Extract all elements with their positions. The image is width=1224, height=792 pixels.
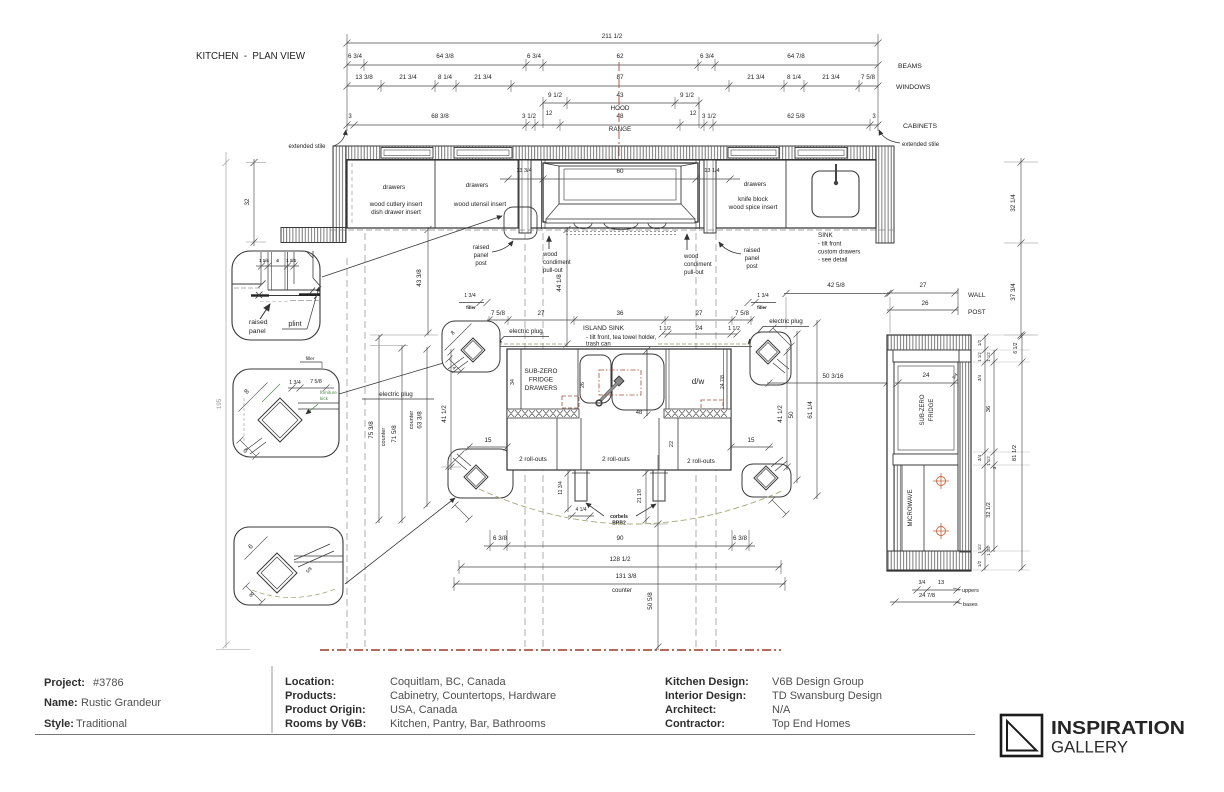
svg-text:d/w: d/w <box>692 377 705 386</box>
counter overhang curve <box>479 489 782 524</box>
elevation mid band <box>893 454 958 465</box>
svg-text:32 1/2: 32 1/2 <box>986 502 992 518</box>
svg-text:68 3/8: 68 3/8 <box>431 113 449 120</box>
wall right leg <box>876 146 894 243</box>
svg-text:filler: filler <box>757 305 767 310</box>
svg-text:Name:: Name: <box>44 697 78 709</box>
island corner posts (diamonds) <box>461 338 485 362</box>
svg-text:raised: raised <box>249 319 268 326</box>
dimension 15 left <box>466 444 511 451</box>
svg-text:64 3/8: 64 3/8 <box>436 53 454 60</box>
raised panel post left callout circle <box>504 207 537 239</box>
dimension 42 5/8 and 27/26 wall post <box>783 290 892 297</box>
svg-text:drawers: drawers <box>383 184 405 191</box>
svg-text:2 roll-outs: 2 roll-outs <box>519 456 547 463</box>
svg-text:TD Swansburg Design: TD Swansburg Design <box>772 690 882 702</box>
dimension row beams: 6 3/4 / 64 3/8 / 6 3/4 / 62 / 6 3/4 / 64 7/8 <box>344 62 882 69</box>
svg-text:22: 22 <box>669 441 675 447</box>
svg-text:Interior Design:: Interior Design: <box>665 690 746 702</box>
centerline hood/range (red) <box>618 62 620 232</box>
svg-text:GALLERY: GALLERY <box>1051 738 1128 757</box>
wall hatched band <box>346 146 876 160</box>
svg-text:Kitchen, Pantry, Bar, Bathroom: Kitchen, Pantry, Bar, Bathrooms <box>390 718 546 730</box>
svg-text:1 3/4: 1 3/4 <box>289 380 301 386</box>
svg-text:extended stile: extended stile <box>902 142 940 148</box>
svg-text:50 5/8: 50 5/8 <box>647 592 654 610</box>
svg-text:62 5/8: 62 5/8 <box>787 113 805 120</box>
svg-text:32: 32 <box>244 198 251 206</box>
svg-text:1 3/4: 1 3/4 <box>757 293 769 299</box>
svg-text:BEAMS: BEAMS <box>898 63 922 70</box>
svg-text:62: 62 <box>616 53 624 60</box>
svg-text:dish drawer insert: dish drawer insert <box>371 209 421 216</box>
svg-text:71 5/8: 71 5/8 <box>391 425 398 443</box>
svg-text:48: 48 <box>616 113 624 120</box>
svg-text:9 1/2: 9 1/2 <box>548 92 563 99</box>
svg-text:wood: wood <box>542 252 557 258</box>
svg-text:Coquitlam, BC, Canada: Coquitlam, BC, Canada <box>390 676 506 688</box>
svg-text:75 3/8: 75 3/8 <box>368 421 375 439</box>
svg-text:43 3/8: 43 3/8 <box>416 269 423 287</box>
svg-text:filler: filler <box>306 356 315 362</box>
svg-text:- tilt front: - tilt front <box>818 242 842 248</box>
svg-text:3 1/2: 3 1/2 <box>522 113 537 120</box>
svg-text:61 1/4: 61 1/4 <box>807 401 814 419</box>
svg-text:13: 13 <box>938 580 944 586</box>
corbel posts <box>575 470 587 501</box>
svg-text:195: 195 <box>216 398 223 409</box>
svg-text:electric plug: electric plug <box>509 328 543 335</box>
svg-text:corbels: corbels <box>610 514 628 520</box>
svg-text:1 1/2: 1 1/2 <box>986 352 991 362</box>
svg-text:1 1/2: 1 1/2 <box>728 326 740 332</box>
box1 raised panel bars <box>251 294 269 296</box>
svg-text:Architect:: Architect: <box>665 704 716 716</box>
range <box>543 163 698 222</box>
svg-text:extended stile: extended stile <box>288 144 326 150</box>
svg-text:4 1/4: 4 1/4 <box>575 507 586 513</box>
svg-text:wood cutlery insert: wood cutlery insert <box>369 201 423 208</box>
base cabinet run outline <box>347 160 876 228</box>
svg-text:1 1/2: 1 1/2 <box>977 544 982 554</box>
dimension 50 3/16 <box>766 380 891 387</box>
svg-text:24: 24 <box>922 372 930 379</box>
svg-text:63 3/8: 63 3/8 <box>417 411 424 429</box>
svg-text:21 3/4: 21 3/4 <box>474 74 492 81</box>
island corner counter boxes <box>442 321 500 372</box>
svg-text:64 7/8: 64 7/8 <box>787 53 805 60</box>
svg-text:60: 60 <box>616 168 624 175</box>
svg-text:FRIDGE: FRIDGE <box>529 377 553 384</box>
svg-text:1 1/4: 1 1/4 <box>286 258 296 263</box>
dimension 211 1/2 overall <box>344 40 882 47</box>
svg-text:27: 27 <box>695 310 703 317</box>
svg-text:21 3/4: 21 3/4 <box>399 74 417 81</box>
island sink basins <box>580 355 611 403</box>
svg-text:24 7/8: 24 7/8 <box>919 593 935 599</box>
arrow detail3 to island post <box>345 498 455 584</box>
projection lines <box>346 258 348 648</box>
svg-text:raised: raised <box>744 248 760 254</box>
svg-text:Style:: Style: <box>44 718 74 730</box>
svg-text:kick: kick <box>320 396 329 401</box>
island top dimension row 7 5/8 / 27 / 36 / 27 / 7 5/8 <box>486 317 755 324</box>
wall left leg <box>333 146 346 243</box>
svg-text:6 3/4: 6 3/4 <box>348 53 363 60</box>
red appliance dashed boxes <box>599 370 641 395</box>
svg-text:Location:: Location: <box>285 676 335 688</box>
dimension 63 3/8 counter <box>424 346 431 509</box>
dimension 32 1/4 / 37 3/4 right <box>1004 161 1038 163</box>
arrow detail1 to plan post <box>322 216 502 277</box>
island lower section dividers <box>556 418 558 470</box>
svg-text:drawers: drawers <box>744 181 766 188</box>
svg-text:1/2: 1/2 <box>977 560 982 567</box>
corbel dims <box>565 470 572 513</box>
dimension 195 (left overall) <box>223 152 230 649</box>
svg-text:- see detail: - see detail <box>818 258 847 264</box>
svg-text:3/4: 3/4 <box>977 374 982 381</box>
svg-text:Products:: Products: <box>285 690 336 702</box>
red datum line <box>320 649 781 651</box>
svg-text:36: 36 <box>986 406 992 412</box>
dimension 24 (fridge) <box>895 380 959 387</box>
svg-text:bases: bases <box>963 602 978 608</box>
island interior verticals upper <box>520 349 522 410</box>
dimension 32 (left wall) <box>246 162 266 164</box>
detail box 1 (raised panel / plint) <box>232 251 320 340</box>
svg-text:HOOD: HOOD <box>611 105 630 112</box>
box1 post section lines <box>260 252 262 284</box>
svg-text:KITCHEN - PLAN VIEW: KITCHEN - PLAN VIEW <box>196 50 305 62</box>
svg-text:87: 87 <box>616 74 624 81</box>
svg-text:Traditional: Traditional <box>76 718 127 730</box>
svg-text:90: 90 <box>616 535 624 542</box>
x-hatch bands <box>507 409 579 418</box>
svg-text:3/4: 3/4 <box>919 580 926 586</box>
svg-text:8 1/4: 8 1/4 <box>787 74 802 81</box>
svg-text:custom drawers: custom drawers <box>818 250 860 256</box>
dimension 13 3/4 / 60 / 13 1/4 chain <box>500 176 740 183</box>
svg-text:37 3/4: 37 3/4 <box>1010 283 1017 301</box>
dimension 43 3/8 <box>425 226 432 337</box>
crosshair knobs <box>937 477 946 486</box>
svg-text:FRIDGE: FRIDGE <box>929 399 935 422</box>
svg-text:knife block: knife block <box>738 196 769 203</box>
elevation bottom band <box>887 551 971 570</box>
svg-text:1 1/2: 1 1/2 <box>659 326 671 332</box>
svg-text:12: 12 <box>546 111 553 117</box>
svg-text:13 1/4: 13 1/4 <box>704 168 719 174</box>
svg-text:furniture: furniture <box>320 390 337 395</box>
svg-text:42 5/8: 42 5/8 <box>827 282 845 289</box>
svg-text:1 1/2: 1 1/2 <box>986 546 991 556</box>
svg-text:pull-out: pull-out <box>684 270 704 276</box>
svg-text:48: 48 <box>636 410 642 416</box>
svg-text:7 5/8: 7 5/8 <box>861 74 876 81</box>
title block rule <box>35 734 975 736</box>
svg-text:ISLAND SINK: ISLAND SINK <box>583 325 625 332</box>
svg-text:panel: panel <box>249 328 266 335</box>
wall left step <box>281 228 346 243</box>
svg-text:7 5/8: 7 5/8 <box>735 310 750 317</box>
svg-text:SUB-ZERO: SUB-ZERO <box>524 368 557 375</box>
svg-text:2 roll-outs: 2 roll-outs <box>602 456 630 463</box>
svg-text:131 3/8: 131 3/8 <box>615 573 637 580</box>
island left dim 41 1/2 <box>448 349 455 471</box>
dimension 15 right <box>728 444 774 451</box>
svg-text:counter: counter <box>381 428 387 447</box>
dimension 50 5/8 (island to wall) <box>655 455 662 651</box>
svg-text:128 1/2: 128 1/2 <box>609 556 631 563</box>
raised panel post right <box>704 160 716 233</box>
dimension 131 3/8 counter <box>453 581 787 588</box>
svg-text:Rooms by V6B:: Rooms by V6B: <box>285 718 366 730</box>
range burners <box>574 223 666 230</box>
counter edge dashed <box>330 229 894 231</box>
svg-text:12: 12 <box>690 111 697 117</box>
cabinet dividers <box>434 160 436 228</box>
svg-text:26: 26 <box>921 300 929 307</box>
bottom dims 6 3/8 / 90 / 6 3/8 <box>489 530 491 551</box>
svg-text:plint: plint <box>288 319 301 328</box>
dimension 128 1/2 <box>458 564 783 571</box>
svg-text:34: 34 <box>510 379 516 385</box>
svg-text:N/A: N/A <box>772 704 791 716</box>
svg-text:21 3/4: 21 3/4 <box>747 74 765 81</box>
elevation top band <box>887 335 971 350</box>
svg-text:uppers: uppers <box>962 588 979 594</box>
elevation right dim ladder <box>973 334 1030 336</box>
svg-text:3: 3 <box>992 466 997 469</box>
svg-text:15: 15 <box>484 437 492 444</box>
elevation outer <box>887 335 971 571</box>
svg-text:26: 26 <box>580 382 586 388</box>
svg-text:21 3/4: 21 3/4 <box>822 74 840 81</box>
logo triangle <box>1007 721 1037 751</box>
svg-text:32 1/4: 32 1/4 <box>1010 194 1017 212</box>
svg-text:6 3/8: 6 3/8 <box>493 535 508 542</box>
svg-text:pull-out: pull-out <box>543 268 563 274</box>
svg-text:Product Origin:: Product Origin: <box>285 704 366 716</box>
svg-text:43: 43 <box>616 92 624 99</box>
svg-text:21 1/8: 21 1/8 <box>637 489 643 503</box>
svg-text:drawers: drawers <box>466 182 488 189</box>
svg-text:41 1/2: 41 1/2 <box>777 405 784 423</box>
svg-text:6 3/4: 6 3/4 <box>700 53 715 60</box>
svg-text:- tilt front, tea towel holder: - tilt front, tea towel holder, <box>586 335 657 341</box>
svg-text:SUB-ZERO: SUB-ZERO <box>920 394 926 425</box>
svg-text:RANGE: RANGE <box>609 126 631 133</box>
box1 dims 1 1/4 / 4 / 1 1/4 <box>256 263 299 270</box>
svg-text:POST: POST <box>968 309 986 316</box>
svg-text:INSPIRATION: INSPIRATION <box>1051 717 1185 738</box>
corner post dims <box>445 324 472 351</box>
svg-text:6 1/2: 6 1/2 <box>1013 342 1019 353</box>
svg-text:wood spice insert: wood spice insert <box>728 204 778 211</box>
svg-text:6 3/4: 6 3/4 <box>527 53 542 60</box>
svg-text:13 3/4: 13 3/4 <box>516 168 531 174</box>
box1 corner wedge <box>306 251 321 287</box>
title block divider <box>271 666 273 733</box>
svg-text:counter: counter <box>409 411 415 430</box>
svg-text:50: 50 <box>788 411 795 419</box>
furniture kick dashed lines <box>486 343 570 345</box>
svg-text:7 5/8: 7 5/8 <box>310 379 322 385</box>
island right dims <box>784 349 791 471</box>
svg-text:27: 27 <box>537 310 545 317</box>
svg-text:condiment: condiment <box>684 262 712 268</box>
svg-text:24: 24 <box>695 325 703 332</box>
svg-text:counter: counter <box>612 588 632 594</box>
svg-text:V6B Design Group: V6B Design Group <box>772 676 864 688</box>
raised panel post left <box>519 160 531 233</box>
dimension row hood: 9 1/2 / 43 / 9 1/2 <box>540 100 703 107</box>
dimension row windows: 13 3/8 / 21 3/4 / 8 1/4 / 21 3/4 / 87 / 21 3/4 / 8 1/4 / 21 3/4 / 7 5/8 <box>344 83 882 90</box>
microwave elevation <box>894 465 958 551</box>
svg-text:3 1/2: 3 1/2 <box>702 113 717 120</box>
svg-text:electric plug: electric plug <box>379 391 413 398</box>
dimension 44 1/8 <box>564 226 571 348</box>
svg-text:8 1/4: 8 1/4 <box>438 74 453 81</box>
dimension 71 5/8 <box>399 345 406 524</box>
svg-text:DRAWERS: DRAWERS <box>525 385 557 392</box>
box1 counter lines <box>232 283 261 285</box>
svg-text:wood utensil insert: wood utensil insert <box>453 201 506 208</box>
svg-text:panel: panel <box>745 256 760 262</box>
svg-text:#3786: #3786 <box>93 677 124 689</box>
svg-text:filler: filler <box>466 305 476 310</box>
svg-text:CABINETS: CABINETS <box>903 123 937 130</box>
svg-text:MICROWAVE: MICROWAVE <box>908 490 914 527</box>
svg-text:Project:: Project: <box>44 677 85 689</box>
svg-text:WALL: WALL <box>968 292 986 299</box>
svg-text:36: 36 <box>616 310 624 317</box>
dimension chain extension lines <box>346 34 348 131</box>
svg-text:post: post <box>746 264 758 270</box>
upper cabinet glass boxes <box>381 148 433 159</box>
svg-text:9 1/2: 9 1/2 <box>680 92 695 99</box>
svg-text:211 1/2: 211 1/2 <box>602 33 623 40</box>
svg-text:3/4: 3/4 <box>977 454 982 461</box>
svg-text:81 1/2: 81 1/2 <box>1012 445 1018 461</box>
svg-text:6 3/8: 6 3/8 <box>733 535 748 542</box>
svg-text:WINDOWS: WINDOWS <box>896 84 931 91</box>
svg-text:44 1/8: 44 1/8 <box>556 274 563 292</box>
svg-text:Cabinetry, Countertops, Hardwa: Cabinetry, Countertops, Hardware <box>390 690 556 702</box>
svg-text:panel: panel <box>474 253 489 259</box>
svg-text:4: 4 <box>276 258 279 263</box>
svg-text:raised: raised <box>473 245 489 251</box>
detail box 2 (island post / furniture kick) <box>233 369 339 457</box>
svg-text:1 1/2: 1 1/2 <box>986 456 991 466</box>
svg-text:27: 27 <box>919 282 927 289</box>
svg-text:Top End Homes: Top End Homes <box>772 718 851 730</box>
svg-text:15: 15 <box>747 437 755 444</box>
svg-text:post: post <box>475 261 487 267</box>
svg-text:1 1/2: 1 1/2 <box>977 352 982 362</box>
svg-text:USA, Canada: USA, Canada <box>390 704 458 716</box>
svg-text:1/2: 1/2 <box>977 339 982 346</box>
svg-text:1 3/4: 1 3/4 <box>464 293 476 299</box>
svg-text:Contractor:: Contractor: <box>665 718 725 730</box>
dimension 75 3/8 counter <box>376 334 383 524</box>
svg-text:1 1/4: 1 1/4 <box>259 258 269 263</box>
svg-text:7 5/8: 7 5/8 <box>491 310 506 317</box>
wall sink <box>812 171 859 217</box>
range side walls <box>541 160 543 229</box>
svg-text:Rustic Grandeur: Rustic Grandeur <box>81 697 161 709</box>
island dim row 1 1/2 / 24 / 1 1/2 (d/w) <box>659 331 741 338</box>
arrow detail2 to island post <box>339 361 450 394</box>
svg-text:Kitchen Design:: Kitchen Design: <box>665 676 749 688</box>
island cabinet body <box>507 349 731 470</box>
elevation right strip <box>960 362 971 552</box>
svg-text:24 7/8: 24 7/8 <box>720 375 726 389</box>
detail box 3 (island corner post) <box>234 527 343 605</box>
svg-text:2 roll-outs: 2 roll-outs <box>687 458 715 465</box>
dimension row cabinets: 3 / 68 3/8 / 3 1/2 / 48 RANGE / 3 1/2 / 62 5/8 / 3 <box>344 122 882 129</box>
svg-text:13 3/8: 13 3/8 <box>355 74 373 81</box>
svg-text:41 1/2: 41 1/2 <box>441 405 448 423</box>
island faucet <box>614 376 624 386</box>
logo square <box>1001 715 1042 756</box>
svg-text:SINK: SINK <box>818 232 833 239</box>
svg-text:11 3/4: 11 3/4 <box>558 481 564 495</box>
svg-text:50 3/16: 50 3/16 <box>822 373 844 380</box>
sub-zero fridge elevation <box>894 362 958 454</box>
